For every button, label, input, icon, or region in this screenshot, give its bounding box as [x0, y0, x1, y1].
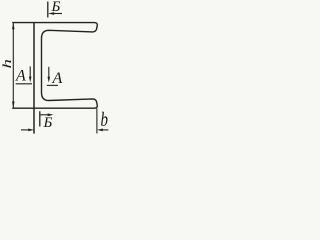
web outer edge / left extension line for b: [33, 23, 35, 134]
svg-text:А: А: [52, 70, 63, 87]
channel profile outline (top line, flange tips, inner contour, bottom line): [12, 23, 97, 109]
svg-text:b: b: [101, 108, 109, 131]
arrowhead h bottom: [12, 102, 15, 108]
section mark A right: underline: [47, 84, 58, 86]
section mark A left: down arrow: [29, 66, 31, 77]
section mark Б top: cut tick: [47, 2, 49, 18]
section mark A left: underline: [16, 83, 32, 85]
section mark Б bottom: arrow pointing right: [40, 114, 48, 116]
dimension b: right arrow pointing left: [102, 129, 108, 131]
svg-text:А: А: [15, 68, 26, 85]
svg-text:Б: Б: [51, 0, 61, 15]
svg-text:Б: Б: [43, 115, 53, 131]
section mark Б top: arrow pointing left: [53, 13, 62, 15]
dimension line h: [12, 23, 14, 107]
section mark Б bottom: cut tick: [39, 111, 41, 126]
arrowhead h top: [12, 23, 15, 29]
right extension line for b: [96, 108, 98, 133]
dimension b: left arrow pointing right: [21, 129, 29, 131]
section mark A right: down arrow: [48, 67, 50, 78]
svg-text:h: h: [0, 59, 14, 68]
